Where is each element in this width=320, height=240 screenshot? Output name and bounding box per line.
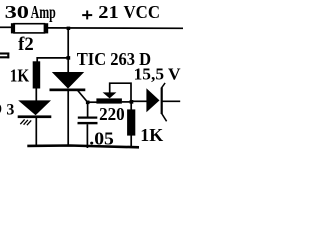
svg-text:f2: f2 [18,35,34,55]
wire pot to junction C [122,101,132,103]
connector bracket left edge [0,53,9,59]
svg-text:15,5 V: 15,5 V [134,65,182,84]
SCR cathode bar [50,89,86,92]
diode D3 cathode bar [18,115,52,118]
node junction A [67,27,71,30]
wire wiper arm [110,83,131,102]
wire R2 to ground [130,136,132,148]
diode D3 triangle [18,100,51,115]
svg-text:220: 220 [99,104,125,124]
ground rail [27,146,139,148]
svg-text:1K: 1K [140,125,163,145]
resistor R1 1K body [33,61,41,88]
node +21 VCC label [82,11,92,20]
svg-text:3: 3 [6,101,14,118]
resistor R2 1K body [127,109,135,135]
SCR TIC263D triangle [52,72,84,89]
svg-text:1K: 1K [10,66,30,86]
wire top rail right [48,27,183,29]
wire SCR cathode to ground [67,91,69,146]
wire B to SCR anode [67,58,69,73]
svg-text:Amp: Amp [31,2,56,22]
capacitor C1 bottom plate [78,122,98,124]
wire R1 to D3 [35,89,37,102]
potentiometer 220 body [96,98,122,103]
zener cathode bar [161,88,163,114]
capacitor C1 top lead [87,102,89,116]
zener bar top tail [162,83,166,88]
wire D3 to ground [35,118,37,146]
node junction C [130,100,134,104]
svg-text:30: 30 [5,2,29,22]
wire junction C to zener [131,100,147,102]
wire A to B vertical [67,28,69,58]
node junction B [66,56,70,60]
wire B to resistor R1 [37,58,68,62]
fuse f2 [11,23,48,33]
svg-text:D: D [0,101,2,118]
capacitor C1 top plate [78,117,98,119]
diode D3 hatch marks [20,119,31,125]
capacitor C1 bottom lead [86,124,88,148]
SCR gate lead [77,90,87,102]
wire junction C to resistor R2 [130,102,132,110]
svg-text:VCC: VCC [124,2,161,22]
wire zener to right [163,100,181,102]
zener bar bottom tail [162,114,167,122]
potentiometer wiper arrow [103,92,117,98]
zener diode triangle [146,88,159,112]
svg-text:21: 21 [98,2,119,22]
node gate junction [86,101,90,105]
wire top rail left [0,26,12,28]
wire gate junction to pot [88,101,97,103]
